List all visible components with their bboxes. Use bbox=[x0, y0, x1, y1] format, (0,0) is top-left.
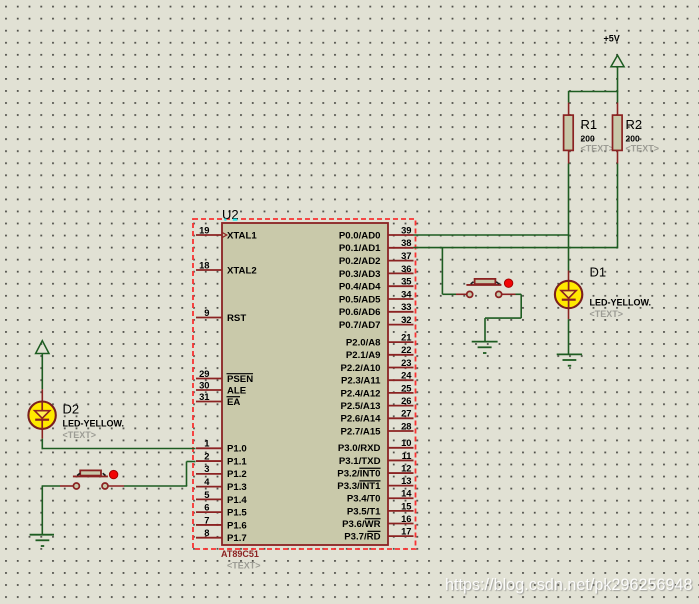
pin 9 RST bbox=[196, 307, 246, 324]
svg-text:<TEXT>: <TEXT> bbox=[63, 430, 97, 440]
pin 38 P0.1/AD1 bbox=[339, 237, 414, 254]
pin 37 P0.2/AD2 bbox=[339, 250, 414, 267]
pin 12 P3.2/INT0 bbox=[337, 462, 413, 479]
svg-text:P2.7/A15: P2.7/A15 bbox=[340, 426, 381, 437]
pin 34 P0.5/AD5 bbox=[339, 288, 414, 305]
svg-text:PSEN: PSEN bbox=[227, 374, 253, 385]
watermark text bbox=[445, 576, 693, 594]
svg-text:5: 5 bbox=[204, 489, 209, 500]
pin 4 P1.3 bbox=[196, 476, 247, 493]
svg-text:29: 29 bbox=[199, 368, 209, 379]
pin 18 XTAL2 bbox=[196, 259, 257, 276]
pin 27 P2.6/A14 bbox=[340, 408, 413, 425]
LED D2 bbox=[28, 389, 55, 439]
wire button1 branch bbox=[442, 248, 456, 295]
svg-text:P1.5: P1.5 bbox=[227, 508, 247, 519]
svg-text:23: 23 bbox=[401, 357, 411, 368]
svg-text:AT89C51: AT89C51 bbox=[221, 549, 259, 559]
svg-text:25: 25 bbox=[401, 382, 411, 393]
svg-text:37: 37 bbox=[401, 250, 411, 261]
svg-text:R1: R1 bbox=[581, 117, 598, 132]
pin 22 P2.1/A9 bbox=[346, 344, 414, 361]
power arrow (left) bbox=[36, 341, 49, 390]
svg-text:P3.2/INT0: P3.2/INT0 bbox=[337, 468, 380, 479]
label LED-YELLOW of D2 bbox=[63, 419, 125, 429]
svg-text:2: 2 bbox=[204, 450, 209, 461]
svg-text:P1.7: P1.7 bbox=[227, 533, 247, 544]
LED D1 bbox=[555, 271, 582, 320]
svg-text:7: 7 bbox=[204, 514, 209, 525]
svg-text:R2: R2 bbox=[626, 117, 643, 132]
pin 23 P2.2/A10 bbox=[340, 357, 413, 374]
svg-text:35: 35 bbox=[401, 276, 411, 287]
svg-text:28: 28 bbox=[401, 420, 411, 431]
svg-text:XTAL2: XTAL2 bbox=[227, 265, 257, 276]
pin 17 P3.7/RD bbox=[344, 526, 413, 543]
ground under left button bbox=[30, 535, 54, 546]
svg-text:38: 38 bbox=[401, 237, 411, 248]
wire +5V branch horizontal bbox=[569, 91, 619, 93]
pin 29 PSEN bbox=[196, 368, 253, 385]
svg-text:P3.7/RD: P3.7/RD bbox=[344, 532, 380, 543]
wire +5V branch to R1 bbox=[568, 91, 570, 103]
svg-text:11: 11 bbox=[402, 450, 412, 461]
pin 2 P1.1 bbox=[196, 450, 247, 467]
resistor R2 bbox=[613, 103, 623, 164]
svg-text:P3.3/INT1: P3.3/INT1 bbox=[337, 481, 381, 492]
svg-text:27: 27 bbox=[401, 408, 411, 419]
svg-text:P0.6/AD6: P0.6/AD6 bbox=[339, 307, 381, 318]
op-amp U2 AT89C51 chip body bbox=[222, 223, 388, 545]
svg-text:1: 1 bbox=[204, 438, 209, 449]
label D1 bbox=[590, 265, 607, 280]
svg-text:P0.0/AD0: P0.0/AD0 bbox=[339, 230, 381, 241]
D1 <TEXT> bbox=[590, 309, 624, 319]
svg-text:3: 3 bbox=[204, 463, 209, 474]
svg-text:<TEXT>: <TEXT> bbox=[590, 309, 624, 319]
svg-text:13: 13 bbox=[401, 475, 411, 486]
pin 33 P0.6/AD6 bbox=[339, 301, 414, 318]
pin 39 P0.0/AD0 bbox=[339, 224, 414, 241]
wire pin38 P0.1 horizontal bbox=[414, 247, 618, 249]
ground under right button bbox=[472, 342, 498, 353]
svg-text:33: 33 bbox=[401, 301, 411, 312]
svg-text:200: 200 bbox=[626, 133, 640, 143]
svg-text:P1.6: P1.6 bbox=[227, 520, 247, 531]
wire R1 to D1 vertical bbox=[568, 164, 570, 271]
pin 32 P0.7/AD7 bbox=[339, 314, 414, 331]
wire D2 to pin1 P1.0 bbox=[42, 439, 196, 450]
svg-text:36: 36 bbox=[401, 263, 411, 274]
D2 <TEXT> bbox=[63, 430, 97, 440]
pin 15 P3.5/T1 bbox=[347, 500, 414, 517]
svg-text:P2.3/A11: P2.3/A11 bbox=[341, 376, 381, 387]
wire pin39 P0.0 to node bbox=[414, 234, 570, 236]
svg-text:P3.6/WR: P3.6/WR bbox=[342, 519, 380, 530]
svg-text:P2.4/A12: P2.4/A12 bbox=[340, 388, 380, 399]
svg-text:200: 200 bbox=[581, 133, 595, 143]
svg-text:12: 12 bbox=[401, 462, 411, 473]
svg-text:P2.5/A13: P2.5/A13 bbox=[340, 401, 380, 412]
pin 10 P3.0/RXD bbox=[338, 437, 414, 454]
wire D1 to ground bbox=[568, 319, 570, 354]
push button (left, on P1.1) bbox=[60, 470, 124, 489]
pin 7 P1.6 bbox=[196, 514, 247, 531]
svg-text:14: 14 bbox=[401, 488, 412, 499]
pin 13 P3.3/INT1 bbox=[337, 475, 413, 492]
svg-text:<TEXT>: <TEXT> bbox=[626, 144, 660, 154]
svg-text:https://blog.csdn.net/pk296256: https://blog.csdn.net/pk296256948 bbox=[445, 576, 693, 594]
svg-text:18: 18 bbox=[199, 259, 209, 270]
svg-text:D2: D2 bbox=[63, 402, 80, 417]
svg-text:P3.0/RXD: P3.0/RXD bbox=[338, 443, 381, 454]
svg-text:22: 22 bbox=[401, 344, 411, 355]
svg-text:P2.1/A9: P2.1/A9 bbox=[346, 350, 381, 361]
svg-text:EA: EA bbox=[227, 397, 240, 408]
svg-text:21: 21 bbox=[401, 332, 411, 343]
svg-text:P0.4/AD4: P0.4/AD4 bbox=[339, 282, 381, 293]
svg-text:RST: RST bbox=[227, 313, 246, 324]
svg-text:4: 4 bbox=[204, 476, 210, 487]
svg-text:P0.7/AD7: P0.7/AD7 bbox=[339, 320, 381, 331]
svg-text:P2.0/A8: P2.0/A8 bbox=[346, 338, 381, 349]
pin 6 P1.5 bbox=[196, 502, 247, 519]
red dashed selection box around U2 bbox=[193, 219, 416, 549]
svg-text:P2.6/A14: P2.6/A14 bbox=[340, 414, 381, 425]
svg-text:P1.2: P1.2 bbox=[227, 469, 247, 480]
pin 11 P3.1/TXD bbox=[339, 450, 414, 467]
label R2 bbox=[626, 117, 643, 132]
pin 31 EA bbox=[196, 391, 240, 408]
svg-text:24: 24 bbox=[401, 370, 412, 381]
resistor R1 bbox=[564, 103, 574, 164]
svg-text:P1.0: P1.0 bbox=[227, 444, 247, 455]
svg-text:8: 8 bbox=[204, 527, 209, 538]
pin 16 P3.6/WR bbox=[342, 513, 413, 530]
svg-text:34: 34 bbox=[401, 288, 412, 299]
svg-text:32: 32 bbox=[401, 314, 411, 325]
ground under D1 bbox=[557, 354, 582, 365]
svg-text:30: 30 bbox=[199, 379, 209, 390]
svg-text:9: 9 bbox=[204, 307, 209, 318]
svg-text:P3.4/T0: P3.4/T0 bbox=[347, 494, 381, 505]
label R1 bbox=[581, 117, 598, 132]
svg-text:P0.3/AD3: P0.3/AD3 bbox=[339, 269, 381, 280]
value 200 of R2 bbox=[626, 133, 640, 143]
wire R2 bottom vertical bbox=[617, 164, 619, 249]
chip value label AT89C51 bbox=[221, 549, 259, 559]
svg-text:17: 17 bbox=[401, 526, 411, 537]
svg-text:P0.2/AD2: P0.2/AD2 bbox=[339, 256, 381, 267]
R2 <TEXT> bbox=[626, 144, 660, 154]
label D2 bbox=[63, 402, 80, 417]
cyan xor artifact on U2 bbox=[224, 219, 237, 221]
svg-text:10: 10 bbox=[401, 437, 411, 448]
svg-text:LED-YELLOW.: LED-YELLOW. bbox=[63, 419, 125, 429]
pin 21 P2.0/A8 bbox=[346, 332, 414, 349]
value 200 of R1 bbox=[581, 133, 595, 143]
svg-text:P3.5/T1: P3.5/T1 bbox=[347, 506, 381, 517]
svg-text:ALE: ALE bbox=[227, 385, 247, 396]
svg-text:26: 26 bbox=[401, 395, 411, 406]
chip property label <TEXT> bbox=[227, 561, 261, 571]
pin 5 P1.4 bbox=[196, 489, 247, 506]
svg-text:19: 19 bbox=[199, 224, 209, 235]
svg-text:P1.3: P1.3 bbox=[227, 482, 247, 493]
svg-text:39: 39 bbox=[401, 224, 411, 235]
svg-text:15: 15 bbox=[401, 500, 411, 511]
R1 <TEXT> bbox=[581, 144, 615, 154]
svg-text:<TEXT>: <TEXT> bbox=[581, 144, 615, 154]
pin 3 P1.2 bbox=[196, 463, 247, 480]
svg-text:D1: D1 bbox=[590, 265, 607, 280]
pin 24 P2.3/A11 bbox=[341, 370, 413, 387]
pin 19 XTAL1 bbox=[196, 224, 257, 241]
wire button1 to ground bbox=[485, 294, 521, 341]
svg-text:P0.1/AD1: P0.1/AD1 bbox=[339, 243, 381, 254]
svg-text:31: 31 bbox=[199, 391, 209, 402]
push button (right, on P0.1) bbox=[456, 279, 516, 298]
svg-text:P0.5/AD5: P0.5/AD5 bbox=[339, 294, 381, 305]
power symbol +5V label bbox=[604, 34, 620, 44]
svg-text:+5V: +5V bbox=[604, 34, 620, 44]
svg-text:P2.2/A10: P2.2/A10 bbox=[340, 363, 380, 374]
label LED-YELLOW of D1 bbox=[590, 298, 652, 308]
pin 36 P0.3/AD3 bbox=[339, 263, 414, 280]
svg-text:P1.4: P1.4 bbox=[227, 495, 247, 506]
pin 8 P1.7 bbox=[196, 527, 247, 544]
svg-text:16: 16 bbox=[401, 513, 411, 524]
svg-text:<TEXT>: <TEXT> bbox=[227, 561, 261, 571]
pin 26 P2.5/A13 bbox=[340, 395, 413, 412]
svg-text:P3.1/TXD: P3.1/TXD bbox=[339, 456, 381, 467]
pin 30 ALE bbox=[196, 379, 247, 396]
pin 14 P3.4/T0 bbox=[347, 488, 414, 505]
power symbol +5V arrow bbox=[611, 55, 624, 102]
svg-text:P1.1: P1.1 bbox=[227, 456, 247, 467]
wire left button to ground bbox=[42, 486, 60, 535]
svg-text:6: 6 bbox=[204, 502, 209, 513]
pin 35 P0.4/AD4 bbox=[339, 276, 414, 293]
svg-text:XTAL1: XTAL1 bbox=[227, 230, 257, 241]
svg-text:LED-YELLOW.: LED-YELLOW. bbox=[590, 298, 652, 308]
wire left button to pin2 P1.1 bbox=[124, 462, 196, 487]
pin 25 P2.4/A12 bbox=[340, 382, 413, 399]
chip reference label U2 bbox=[222, 207, 239, 222]
pin 1 P1.0 bbox=[196, 438, 247, 455]
pin 28 P2.7/A15 bbox=[340, 420, 413, 437]
